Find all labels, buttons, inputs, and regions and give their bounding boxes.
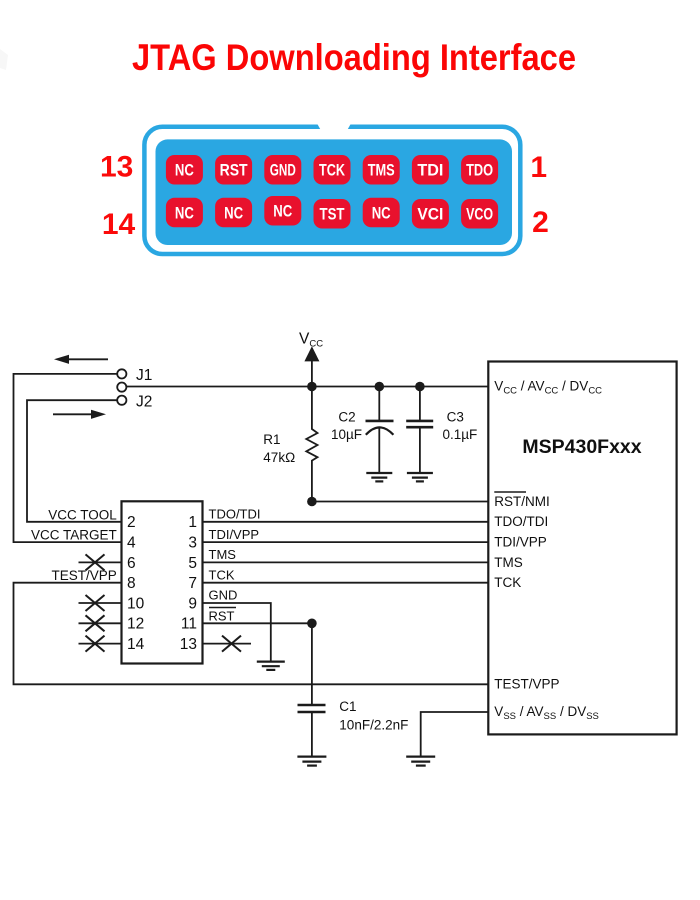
capacitor C2 — [378, 387, 380, 421]
wire RST/NMI — [312, 501, 488, 503]
junction dot RST/NMI — [307, 497, 317, 507]
svg-text:TCK: TCK — [319, 161, 346, 180]
svg-text:TDO/TDI: TDO/TDI — [494, 514, 548, 529]
svg-text:NC: NC — [175, 203, 194, 222]
svg-text:TMS: TMS — [368, 161, 395, 180]
ground GND pin9 — [257, 662, 285, 670]
svg-text:13: 13 — [180, 636, 197, 653]
junction dot RST — [307, 619, 317, 629]
pin 2 VCO — [461, 199, 498, 229]
pin 9 GND — [264, 155, 301, 185]
svg-text:TEST/VPP: TEST/VPP — [494, 677, 559, 692]
svg-text:6: 6 — [127, 555, 136, 572]
connector shell notch — [317, 123, 352, 132]
svg-text:2: 2 — [532, 206, 549, 239]
svg-text:1: 1 — [188, 514, 197, 531]
connector body — [156, 139, 513, 245]
svg-text:9: 9 — [188, 595, 197, 612]
svg-text:RST: RST — [220, 161, 249, 180]
wire TEST/VPP run — [14, 583, 489, 685]
no-connect pin 14 X — [86, 636, 105, 652]
label RST row overline — [209, 607, 236, 609]
wire TCK row — [203, 582, 489, 584]
wire TDI/VPP row — [203, 541, 489, 543]
svg-text:MSP430Fxxx: MSP430Fxxx — [522, 436, 641, 458]
no-connect pin 10 X — [86, 595, 105, 611]
ground C1 — [297, 757, 326, 766]
svg-text:10: 10 — [127, 595, 145, 612]
ground C2 — [366, 473, 392, 481]
pin 14 NC — [166, 198, 203, 228]
wire J2 to left rail — [27, 400, 122, 522]
svg-text:8: 8 — [127, 575, 136, 592]
pin 11 RST — [215, 155, 252, 185]
svg-text:RST/NMI: RST/NMI — [494, 494, 550, 509]
junction dot C3 — [415, 382, 425, 392]
svg-text:12: 12 — [127, 616, 144, 633]
arrow right — [53, 413, 92, 415]
svg-text:5: 5 — [188, 555, 197, 572]
pin 5 TMS — [363, 155, 400, 185]
wire J1 to left rail — [14, 374, 122, 542]
no-connect pin 6 stub — [79, 561, 122, 563]
pin 12 NC — [215, 198, 252, 228]
chip U1 MSP430 box — [488, 362, 676, 735]
svg-text:VCC TARGET: VCC TARGET — [31, 527, 117, 542]
svg-text:NC: NC — [372, 203, 391, 222]
no-connect pin 13 stub — [203, 643, 252, 645]
wire TDO/TDI row — [203, 521, 489, 523]
svg-text:J1: J1 — [136, 367, 152, 384]
svg-text:NC: NC — [224, 203, 243, 222]
svg-text:VCI: VCI — [417, 205, 443, 224]
svg-text:13: 13 — [100, 151, 133, 184]
pin 8 TST — [314, 199, 351, 229]
ground Vss — [406, 757, 435, 766]
wire R1 to C1 — [311, 623, 313, 705]
no-connect pin 12 X — [86, 615, 105, 631]
svg-text:TMS: TMS — [209, 547, 237, 562]
power Vcc arrow — [304, 346, 319, 361]
svg-text:GND: GND — [270, 161, 296, 180]
no-connect pin 6 X — [86, 554, 105, 570]
wire Vss — [421, 712, 489, 757]
capacitor C1 — [298, 704, 326, 707]
pin 1 TDO — [461, 155, 498, 185]
svg-text:10µF: 10µF — [331, 427, 362, 442]
svg-text:TST: TST — [320, 205, 345, 224]
jumper J2 circle — [117, 396, 126, 405]
svg-text:TDI: TDI — [417, 161, 443, 180]
svg-text:7: 7 — [188, 575, 197, 592]
svg-text:TDI/VPP: TDI/VPP — [494, 535, 547, 550]
svg-text:GND: GND — [209, 588, 238, 603]
wire GND row — [203, 603, 271, 662]
wire RST row — [203, 622, 312, 624]
svg-text:3: 3 — [188, 535, 197, 552]
wire TMS row — [203, 561, 489, 563]
junction dot C2 — [375, 382, 385, 392]
svg-text:VCO: VCO — [466, 205, 493, 224]
pin 7 TCK — [314, 155, 351, 185]
watermark smudge — [0, 49, 8, 70]
svg-text:2: 2 — [127, 514, 136, 531]
svg-text:TEST/VPP: TEST/VPP — [52, 568, 117, 583]
svg-text:TCK: TCK — [494, 575, 521, 590]
svg-text:RST: RST — [209, 608, 235, 623]
no-connect pin 14 stub — [79, 643, 122, 645]
junction dot Vcc/R1 — [307, 382, 317, 392]
ground C3 — [407, 473, 433, 481]
svg-text:C1: C1 — [339, 699, 356, 714]
svg-text:10nF/2.2nF: 10nF/2.2nF — [339, 718, 408, 733]
svg-text:R1: R1 — [263, 432, 280, 447]
pin 13 NC — [166, 155, 203, 185]
svg-text:TDO/TDI: TDO/TDI — [209, 507, 261, 522]
svg-text:TDO: TDO — [466, 161, 493, 180]
svg-text:TMS: TMS — [494, 555, 523, 570]
svg-text:47kΩ: 47kΩ — [263, 450, 295, 465]
no-connect pin 10 stub — [79, 602, 122, 604]
svg-text:VCC TOOL: VCC TOOL — [48, 507, 117, 522]
arrow left — [67, 358, 108, 360]
connector shell — [144, 127, 520, 254]
svg-text:11: 11 — [181, 616, 197, 633]
svg-text:JTAG Downloading Interface: JTAG Downloading Interface — [132, 36, 576, 78]
pin 10 NC — [264, 196, 301, 226]
svg-text:C2: C2 — [338, 410, 355, 425]
pin 6 NC — [363, 198, 400, 228]
capacitor C3 — [419, 387, 421, 421]
no-connect pin 12 stub — [79, 622, 122, 624]
svg-text:C3: C3 — [447, 410, 464, 425]
svg-text:0.1µF: 0.1µF — [443, 427, 478, 442]
svg-text:NC: NC — [175, 161, 194, 180]
svg-text:1: 1 — [530, 151, 547, 184]
no-connect pin 13 X — [222, 636, 241, 652]
pin 3 TDI — [412, 155, 449, 185]
jumper J1 circle — [117, 369, 126, 378]
pin label RST/NMI overline — [494, 491, 526, 493]
svg-text:NC: NC — [273, 202, 292, 221]
svg-text:J2: J2 — [136, 393, 152, 410]
pin 4 VCI — [412, 199, 449, 229]
wire main Vcc rail — [126, 386, 488, 388]
jumper mid circle — [117, 383, 126, 392]
svg-text:TDI/VPP: TDI/VPP — [209, 527, 260, 542]
resistor R1 — [306, 387, 317, 502]
svg-text:TCK: TCK — [209, 567, 235, 582]
svg-text:4: 4 — [127, 535, 136, 552]
svg-text:14: 14 — [102, 208, 136, 241]
svg-text:14: 14 — [127, 636, 145, 653]
connector J box — [122, 501, 203, 663]
